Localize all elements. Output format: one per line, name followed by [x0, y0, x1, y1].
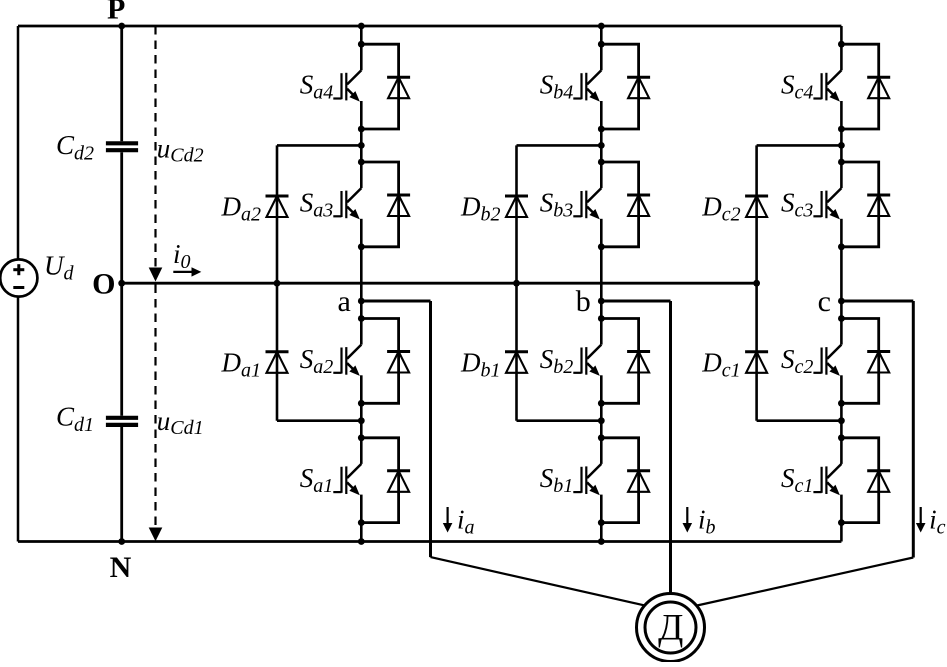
svg-text:P: P — [107, 0, 125, 26]
svg-text:N: N — [110, 551, 132, 584]
svg-text:c: c — [818, 285, 831, 318]
svg-text:b: b — [576, 285, 591, 318]
svg-text:O: O — [92, 268, 115, 301]
svg-text:a: a — [337, 285, 350, 318]
svg-text:Д: Д — [658, 608, 683, 649]
